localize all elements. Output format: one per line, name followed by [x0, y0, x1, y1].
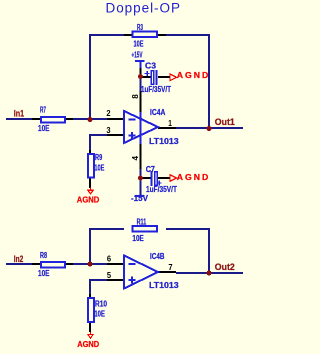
svg-text:10E: 10E: [94, 163, 104, 173]
svg-text:10E: 10E: [38, 123, 50, 133]
svg-text:1uF/35V/T: 1uF/35V/T: [146, 184, 178, 194]
svg-text:3: 3: [106, 126, 111, 135]
svg-text:10E: 10E: [94, 309, 105, 319]
svg-text:Doppel-OP: Doppel-OP: [106, 1, 181, 16]
svg-text:Out1: Out1: [215, 117, 235, 127]
svg-text:-15V: -15V: [131, 193, 148, 203]
svg-text:8: 8: [131, 94, 140, 99]
svg-text:In2: In2: [14, 254, 24, 264]
svg-text:R7: R7: [40, 105, 46, 115]
svg-text:IC4B: IC4B: [150, 251, 164, 261]
svg-text:R11: R11: [137, 217, 147, 227]
svg-text:In1: In1: [14, 109, 24, 119]
svg-text:1: 1: [168, 119, 172, 128]
svg-text:6: 6: [107, 255, 112, 264]
svg-text:R10: R10: [95, 299, 107, 309]
svg-text:10E: 10E: [38, 268, 50, 278]
svg-text:R3: R3: [137, 22, 143, 32]
svg-text:1uF/35V/T: 1uF/35V/T: [141, 84, 171, 94]
svg-text:LT1013: LT1013: [149, 280, 179, 290]
svg-text:LT1013: LT1013: [149, 136, 179, 146]
svg-text:R8: R8: [40, 250, 47, 260]
svg-text:C3: C3: [145, 61, 156, 71]
svg-text:AGND: AGND: [77, 195, 100, 205]
svg-text:10E: 10E: [132, 233, 144, 243]
svg-text:C7: C7: [146, 164, 155, 174]
svg-text:+15V: +15V: [132, 50, 143, 60]
svg-text:5: 5: [107, 271, 112, 280]
svg-text:IC4A: IC4A: [150, 107, 166, 117]
svg-text:10E: 10E: [134, 39, 144, 49]
svg-text:Out2: Out2: [215, 262, 235, 272]
svg-text:2: 2: [106, 109, 111, 118]
svg-text:7: 7: [168, 263, 173, 272]
svg-text:R9: R9: [95, 152, 102, 162]
svg-text:AGND: AGND: [77, 339, 99, 349]
svg-text:4: 4: [131, 155, 140, 160]
